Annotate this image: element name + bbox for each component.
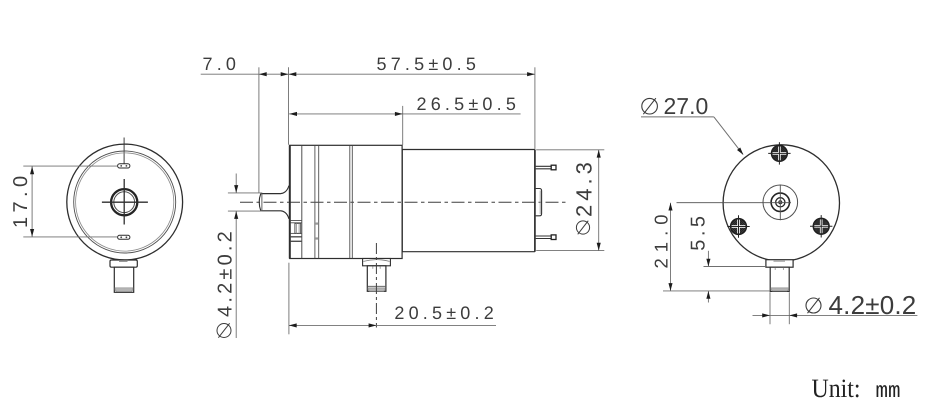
svg-text:mm: mm [876,379,901,404]
svg-text:17.0: 17.0 [10,171,32,228]
svg-text:27.0: 27.0 [664,93,709,119]
svg-text:20.5±0.2: 20.5±0.2 [394,303,498,323]
svg-text:7.0: 7.0 [203,54,241,74]
svg-text:Unit:: Unit: [812,373,861,403]
svg-text:26.5±0.5: 26.5±0.5 [417,94,521,114]
svg-text:21.0: 21.0 [651,208,672,268]
svg-text:4.2±0.2: 4.2±0.2 [829,290,917,320]
svg-text:57.5±0.5: 57.5±0.5 [377,54,481,74]
svg-text:24.3: 24.3 [572,158,597,217]
svg-text:4.2±0.2: 4.2±0.2 [215,228,237,317]
svg-text:5.5: 5.5 [688,212,710,250]
